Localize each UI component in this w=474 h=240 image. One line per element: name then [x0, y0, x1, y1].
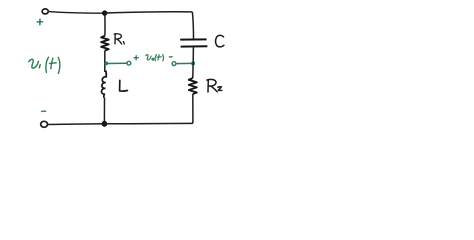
- node: - probe open circle: [172, 62, 176, 66]
- label R2: [207, 79, 222, 92]
- node: top junction dot: [102, 10, 107, 15]
- node: top-left input terminal: [42, 9, 48, 14]
- capacitor C top plate: [180, 38, 206, 40]
- wire: bottom terminal to bottom junction: [48, 123, 105, 126]
- wire: R2 down to bottom-right corner: [192, 94, 194, 123]
- label C: [216, 35, 224, 46]
- inductor L (coil): [101, 71, 106, 98]
- label: v1(t) source green script: [29, 57, 60, 73]
- label: - of vo(t): [169, 56, 172, 58]
- node: middle-right green junction: [191, 61, 195, 65]
- label: vo(t) green script: [146, 55, 164, 61]
- label R1: [114, 34, 124, 44]
- node: bottom-left terminal: [41, 121, 48, 127]
- wire: top junction to top-right corner: [105, 12, 193, 13]
- wire: R1 to middle-left node: [104, 51, 106, 72]
- label: + polarity of v1(t): [37, 19, 42, 25]
- wire: middle-right node down to R2: [192, 64, 194, 79]
- resistor R1 (zigzag): [101, 36, 109, 51]
- node: bottom junction dot: [102, 121, 108, 127]
- wire: top-right corner down to capacitor: [192, 12, 193, 39]
- label: - polarity of v1(t): [42, 110, 46, 112]
- wire: green stub to right branch: [176, 62, 191, 64]
- capacitor C bottom plate: [181, 45, 208, 47]
- wire: inductor to bottom junction: [103, 98, 105, 124]
- wire: top-left terminal to top junction: [48, 12, 104, 14]
- wire: capacitor to middle-right node: [192, 47, 194, 63]
- node: + probe open circle: [127, 61, 131, 65]
- node: middle-left green junction: [105, 62, 109, 66]
- wire: green stub to + probe circle: [108, 62, 127, 64]
- label: + of vo(t): [134, 56, 138, 60]
- resistor R2 (zigzag): [189, 78, 197, 94]
- label L: [120, 80, 128, 91]
- wire: left branch, junction down to R1: [104, 13, 106, 36]
- wire: bottom junction to bottom-right corner: [104, 122, 192, 124]
